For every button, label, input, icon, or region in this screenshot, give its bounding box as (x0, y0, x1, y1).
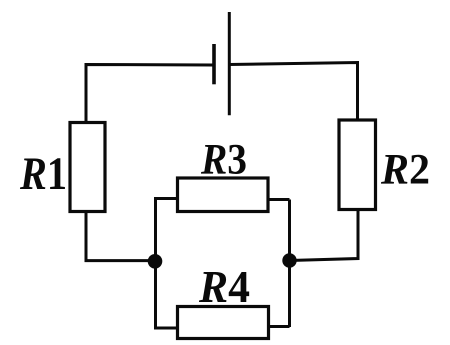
node left junction dot (148, 254, 163, 269)
svg-text:R1: R1 (19, 148, 67, 200)
wire R4 right lead (267, 325, 290, 328)
svg-text:R2: R2 (380, 147, 430, 194)
wire R4 left lead (154, 327, 178, 330)
svg-text:R3: R3 (200, 137, 247, 184)
resistor R2 body (339, 120, 376, 210)
svg-text:R4: R4 (198, 262, 250, 312)
node right junction dot (282, 253, 296, 267)
wire R3 right lead (267, 198, 290, 201)
wire left branch vertical R3 to R4 (154, 199, 157, 329)
battery cell long plate (positive) (228, 12, 231, 115)
wire right node to R2 bottom (290, 210, 359, 261)
wire right branch vertical R3 to R4 (288, 200, 291, 328)
wire top-left from battery to R1 (86, 65, 213, 122)
wire R1 bottom to left node (86, 212, 155, 261)
resistor R4 body (178, 307, 269, 339)
wire R3 left lead (154, 197, 178, 200)
battery cell short plate (negative) (212, 44, 216, 84)
resistor R3 body (178, 178, 269, 212)
resistor R1 body (70, 123, 105, 212)
wire top-right from battery to R2 (229, 63, 357, 120)
